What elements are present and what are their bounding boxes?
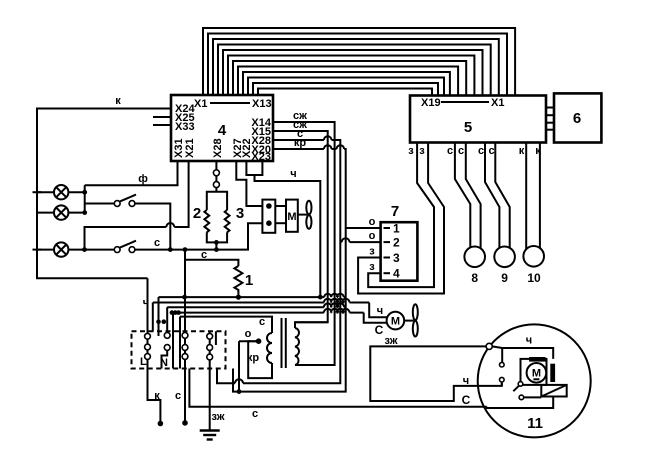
wire X22/X23 bracket [246,161,320,297]
breaker upper contact [518,382,523,387]
wire s X28 (to box7 pin2 and L-line) [217,140,340,383]
wire N hook [162,350,168,368]
pin 1 (box 7) [384,227,391,229]
wire junction vertical lamps [84,185,86,212]
wire zh inside to motor top [492,346,553,359]
wire drop row297 [158,297,160,336]
svg-text:С: С [462,393,471,407]
svg-text:6: 6 [573,110,581,127]
svg-text:о: о [245,328,252,340]
pin 4 (box 7) [384,272,391,274]
switch S2 [114,247,135,253]
connector pins x185 [182,333,188,360]
lamp L1 [54,185,68,199]
svg-text:М: М [391,316,400,328]
wire sj X15 [273,131,328,322]
node lamp2 junction [82,210,87,215]
svg-text:3: 3 [236,205,244,222]
node zh entry [486,343,492,349]
propeller (block 3 fan) [298,214,307,216]
wire lamp L3 to rail [37,249,54,251]
svg-text:ч: ч [143,297,149,309]
svg-text:с: с [252,408,258,420]
svg-text:с: с [488,145,494,157]
fan motor M (block 3) [286,200,298,232]
wire lower breaker contact to relay [524,396,542,398]
svg-text:к: к [154,390,160,402]
svg-text:с: с [478,145,484,157]
svg-text:з: з [369,246,375,258]
wire branch to resistor 1 [185,260,239,266]
wire ch (rail to L pin and terminal k) [148,278,161,423]
wire box7 pin1 from kr vertical [346,227,381,229]
wire secondary top to sj [295,322,328,328]
ECU unit 4 [171,95,273,161]
svg-text:11: 11 [527,415,543,432]
wire box7 pin4 bracket to z1 [368,143,434,287]
svg-text:X1: X1 [491,97,504,109]
breaker lower contact [519,395,524,400]
wire zh (row297 to motor 11) [370,346,502,401]
wire lamp L2 to rail [37,212,54,214]
wire f (high beam) to X31 [85,161,178,185]
wire zh column to ground [209,331,211,430]
wire row-ch (to wiper motor, y302.5) [153,299,369,303]
terminal k node [158,421,164,427]
control unit 5 [410,96,546,143]
heater block 3 [262,200,275,233]
wire box7 pin2 from s vertical [340,241,380,243]
wire bus-4 (box4 top to box5 top) [218,45,491,96]
svg-text:4: 4 [393,267,400,281]
resistor 1 [234,266,242,294]
node X23 net joins row297 [318,295,323,300]
svg-text:X33: X33 [175,121,195,133]
wire X21 row (y227) [85,161,189,250]
wire box7 pin3 bracket to z2 [358,143,444,294]
wire row4 (to washer motor, y312.6) [173,309,364,313]
svg-text:к: к [519,145,525,157]
breaker blade [513,386,519,391]
svg-text:о: о [369,230,376,242]
node comp2 bottom [214,240,219,245]
wire lamp1 to junction [68,191,84,193]
wire pair s s to sensor 9 [485,143,510,248]
wire k (battery feed to X24) [37,109,171,279]
wire s-row to terminal s [184,250,186,423]
washer motor M [387,312,405,330]
wire bus-2 (box4 top to box5 top) [208,34,507,96]
svg-text:М: М [287,211,296,223]
relay block 11 [541,385,566,397]
wire stub X33 [153,124,171,126]
svg-text:4: 4 [218,122,227,139]
svg-text:к: к [535,145,541,157]
svg-text:X13: X13 [252,98,272,110]
svg-text:2: 2 [193,205,201,222]
wire lower contact to ch channel [501,382,503,386]
wire row3 (y307.2) [167,303,346,307]
suppressor bar top (black) [529,357,545,362]
svg-text:с: с [447,145,453,157]
svg-text:М: М [532,367,541,379]
svg-text:с: с [458,145,464,157]
wire drop row316 [179,317,181,369]
display unit 6 [554,93,601,142]
wires box5 to box6 links [546,108,554,130]
wire drop row302 [152,303,154,332]
motor unit 11 circle [478,324,591,437]
wire lamp3 to switch S2 [68,249,114,251]
sensor 9 [494,246,515,267]
wire bus-7 (box4 top to box5 top) [233,61,466,96]
svg-text:з: з [369,261,375,273]
node at lamp3 row x84.5 [82,247,87,252]
connector housing (dashed) [132,331,226,368]
svg-text:ф: ф [138,173,148,185]
svg-text:с: с [259,316,265,328]
wire s-row (parking light feed) [135,223,263,249]
wire kr hook primary bottom [248,341,272,378]
svg-text:X28: X28 [212,138,224,158]
wire comp2 bottom to s-row [215,242,217,249]
wire ch to washer motor [369,303,387,318]
svg-text:с: с [201,249,207,261]
wires block3 to motor [275,205,286,207]
svg-text:зж: зж [384,335,397,347]
node s-row switch junction [168,247,173,252]
wire row-zh (X23 net to green-yellow, y297) [159,294,346,297]
transformer primary coil [267,333,272,363]
svg-text:X23: X23 [251,151,271,163]
svg-text:с: с [154,237,160,249]
wire bus-8 (box4 top to box5 top) [238,67,458,96]
svg-text:X21: X21 [184,138,196,158]
lamp L2 [54,205,68,219]
wire switch S1 output down [135,204,170,250]
connector pins x147.5 [145,333,151,359]
svg-text:9: 9 [501,271,508,285]
sensor 10 [523,246,544,267]
svg-text:ч: ч [526,335,532,347]
sensor 8 [464,246,485,267]
svg-text:С: С [375,323,384,337]
switch S1 [114,201,135,207]
svg-text:5: 5 [464,119,472,136]
pin 3 (box 7) [384,257,391,259]
svg-text:8: 8 [471,271,478,285]
svg-text:з: з [419,145,425,157]
ground symbol [200,431,220,440]
node s-row comp2 [214,247,219,252]
node x184.6 on row297 [182,295,187,300]
terminal s node [182,420,188,426]
svg-text:з: з [408,145,414,157]
node resistor1 bottom on row297 [236,295,241,300]
transformer secondary coil [295,328,299,365]
rail tick top [33,191,42,193]
wire row5 (to transformer primary, y316.6) [180,317,272,333]
connector X28 circles [215,161,217,192]
svg-text:X19: X19 [421,97,441,109]
svg-text:ч: ч [290,168,296,180]
wire stub X25 [153,116,171,118]
motor 11 box [521,359,547,385]
wire drop row312 [172,313,174,369]
svg-text:ч: ч [377,305,383,317]
svg-text:3: 3 [393,251,400,265]
wire pair s s to sensor 8 [455,143,481,248]
propeller (washer) [404,320,413,322]
wire s to washer motor [364,313,387,323]
svg-text:с: с [175,390,181,402]
switch contacts 11 [500,362,505,382]
svg-text:2: 2 [393,236,400,250]
wire bottom s line to motor 11 [189,369,486,407]
wire o branch down [238,341,240,391]
wire kr X20 (to box7 pin1 and bottom line) [233,149,346,392]
hop on y227 over switch wire [166,223,174,227]
node o-branch joins kr line [237,389,242,394]
wire X19-X1 internal line [441,101,489,103]
connector pins x167.2 [164,333,170,351]
svg-text:7: 7 [391,203,399,220]
svg-text:ч: ч [463,375,469,387]
switch S1 wire from junction [85,203,115,205]
wire bus-1 (box4 top to box5 top) [203,28,515,96]
wire lamp2 to junction [68,212,84,214]
wire lamp L1 to rail [37,191,54,193]
wire bus-9 (box4 top to box5 top) [243,72,450,96]
junction nodes cluster [170,310,175,315]
wire bus-5 (box4 top to box5 top) [223,50,483,96]
wire X1-X13 internal line [210,102,250,104]
svg-text:о: о [369,216,376,228]
svg-text:кр: кр [294,137,307,149]
svg-text:1: 1 [393,222,400,236]
wire bus-10 (box4 top to box5 top, inner) [248,78,444,96]
svg-text:X1: X1 [194,98,207,110]
svg-text:кр: кр [247,352,260,364]
wire X27 to heater block 3 [236,161,262,206]
wire drop row307 [166,307,168,335]
wire bus-11 (box4 top to box5 top, inner) [253,83,438,96]
svg-text:зж: зж [211,411,224,423]
rail tick bottom [33,249,42,251]
connector pins x209.7 [207,333,213,360]
capacitor bar right (black) [550,364,555,382]
svg-text:к: к [115,95,121,107]
svg-text:10: 10 [527,271,541,285]
node lamp1 junction [82,190,87,195]
wire bus-6 (box4 top to box5 top) [228,56,474,96]
connector block 7 [381,222,418,281]
wire o horizontal [239,340,256,342]
wire bottom inside 11 [487,397,553,409]
wire switch riser [501,348,503,363]
svg-text:1: 1 [245,272,253,289]
resistor block 2 [207,192,227,243]
wire bus-12 (box4 top to box5 top, inner) [258,89,432,96]
terminal o node [256,338,262,344]
wire pair k k to sensor 10 [526,143,540,250]
pin 2 (box 7) [384,241,391,243]
wire bus-3 (box4 top to box5 top) [213,39,499,96]
svg-text:X22: X22 [241,138,253,158]
wire sj X14 [273,122,335,365]
lamp L3 [54,242,68,256]
transformer core [281,318,283,368]
wire col 216 top [215,331,217,345]
motor 11 M circle [527,363,547,383]
node s-row x185 [183,247,188,252]
